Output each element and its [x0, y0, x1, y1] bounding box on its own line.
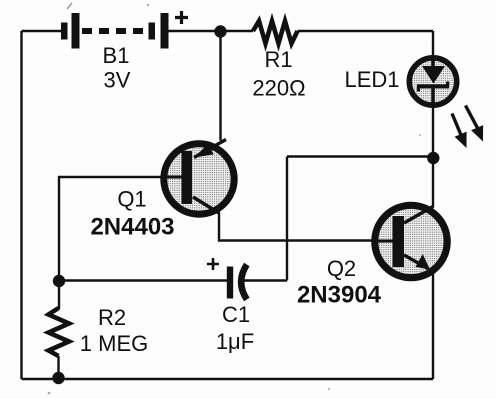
LED1 light emission arrow lower [452, 114, 467, 149]
svg-text:2N4403: 2N4403 [90, 214, 174, 241]
svg-text:3V: 3V [104, 68, 131, 93]
svg-text:LED1: LED1 [344, 67, 399, 92]
svg-text:R1: R1 [264, 47, 292, 72]
svg-text:R2: R2 [98, 305, 126, 330]
wire Q2 collector up to node B [432, 157, 434, 208]
C1 plus polarity mark [207, 258, 219, 270]
wire top rail from R1 to top right corner [298, 30, 434, 32]
wire Q2 emitter down to bottom rail [432, 270, 434, 379]
wire node C down to R2 [58, 281, 60, 309]
svg-text:B1: B1 [103, 43, 130, 68]
wire Q1 collector down then right to Q2 base [219, 212, 393, 241]
svg-text:C1: C1 [222, 302, 250, 327]
node C junction dot (Q1 base / R2 top / C1 minus) [53, 275, 65, 287]
node D junction dot on bottom rail [52, 372, 64, 384]
Q1 collector line [193, 197, 219, 213]
wire LED1 cathode down to node B [432, 105, 434, 157]
battery B1 [61, 13, 169, 49]
wire Q1 emitter up to node A [219, 31, 221, 141]
wire top rail left segment [22, 30, 63, 32]
wire from C1 right plate to vertical branch [241, 279, 287, 281]
Q1 emitter with arrow pointing into base (PNP) [194, 140, 226, 158]
wire Q1 base left then down to node C [59, 177, 182, 281]
wire top rail from node A to R1 [220, 30, 253, 32]
wire top rail from battery to node A [169, 30, 221, 32]
wire R2 bottom to node D [57, 356, 59, 378]
LED LED1 [409, 58, 456, 106]
transistor Q1 body [163, 144, 234, 214]
wire from node B left toward C1 branch corner [287, 155, 433, 157]
svg-text:Q1: Q1 [117, 187, 146, 212]
capacitor C1 [227, 265, 247, 300]
resistor R1 [253, 21, 298, 44]
wire down from corner to C1 positive side [286, 157, 288, 281]
node B junction dot (LED cathode / Q2 collector / C1 net) [427, 152, 439, 164]
LED1 light emission arrow upper [466, 106, 484, 142]
wire left rail [20, 31, 22, 379]
battery B1 plus polarity mark [175, 11, 188, 24]
svg-text:Q2: Q2 [327, 256, 356, 281]
svg-text:1 MEG: 1 MEG [80, 331, 148, 356]
resistor R2 [49, 308, 70, 356]
svg-text:220Ω: 220Ω [252, 76, 305, 101]
node A junction dot (V+ rail) [214, 25, 226, 37]
Q2 emitter with outward arrow (NPN) [404, 254, 430, 269]
svg-text:2N3904: 2N3904 [297, 282, 382, 309]
wire C1 left plate to node C [59, 279, 227, 281]
wire from top right corner down to LED1 anode [432, 31, 434, 60]
transistor Q2 body [375, 205, 447, 277]
Q2 collector line [404, 207, 433, 224]
svg-text:1μF: 1μF [216, 329, 254, 354]
wire bottom rail [22, 378, 434, 380]
